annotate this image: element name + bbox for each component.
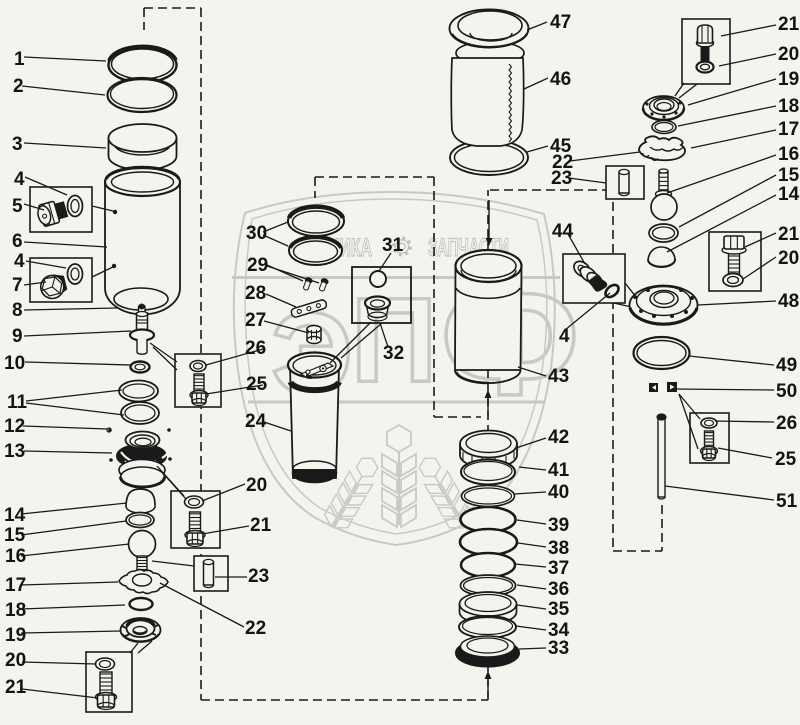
svg-text:1: 1 — [14, 49, 25, 70]
ring 10 — [131, 362, 150, 373]
pin 23 right — [619, 169, 629, 195]
box washer 20 bolt 21 mid — [171, 491, 220, 548]
ring 49 — [634, 337, 690, 369]
svg-text:35: 35 — [548, 599, 570, 620]
svg-text:22: 22 — [245, 618, 266, 639]
ring 11a — [119, 381, 158, 402]
svg-text:12: 12 — [4, 416, 25, 437]
bolt 21 mid — [185, 512, 205, 547]
flange nut 19r — [643, 96, 684, 120]
svg-text:41: 41 — [548, 460, 570, 481]
ring 39 — [461, 507, 516, 532]
svg-text:14: 14 — [4, 505, 26, 526]
box washer 26r bolt 25r — [690, 413, 729, 463]
arrow above cylinder 43 — [486, 200, 493, 246]
flange 48 — [630, 286, 698, 325]
ring 18r — [652, 121, 676, 134]
svg-text:15: 15 — [778, 165, 800, 186]
box bolt 20-21 bottom — [86, 652, 132, 712]
ring 45 — [450, 140, 528, 175]
svg-text:3: 3 — [12, 134, 23, 155]
dashed group boundary — [144, 8, 662, 700]
ring 42 — [460, 431, 517, 469]
ring 47 — [450, 10, 529, 48]
box plug 4-7 — [30, 258, 92, 302]
svg-text:46: 46 — [550, 69, 571, 90]
bolt 21b — [722, 236, 746, 274]
ring 40 — [462, 486, 515, 507]
piston in cylinder 24 — [288, 353, 341, 380]
washer 20 bottom — [96, 658, 115, 670]
washer 4b — [68, 264, 83, 284]
ring 30a — [288, 206, 344, 236]
svg-text:2: 2 — [13, 76, 24, 97]
svg-text:23: 23 — [551, 168, 572, 189]
watermark shield logo — [232, 192, 580, 545]
svg-text:49: 49 — [776, 355, 797, 376]
svg-text:14: 14 — [778, 184, 800, 205]
svg-text:25: 25 — [246, 374, 268, 395]
svg-text:24: 24 — [245, 411, 267, 432]
collar of cylinder 24 — [291, 382, 340, 390]
flange nut 19 — [121, 618, 161, 642]
bolt 25r — [701, 431, 718, 461]
svg-text:11: 11 — [7, 392, 28, 413]
svg-text:4: 4 — [14, 251, 25, 272]
ring 33 — [456, 636, 519, 667]
stop pieces 50 — [649, 382, 677, 392]
svg-text:37: 37 — [548, 558, 569, 579]
svg-text:7: 7 — [12, 275, 23, 296]
washer 4a — [68, 196, 83, 217]
nut 27 — [307, 326, 321, 344]
leader dot 12 — [107, 428, 111, 432]
box pin 23 left — [194, 556, 228, 591]
ball 16 — [129, 531, 156, 572]
svg-text:44: 44 — [552, 221, 574, 242]
ring 37 — [461, 553, 515, 577]
svg-text:23: 23 — [248, 566, 269, 587]
ring 15r — [649, 224, 678, 242]
washer 26 — [190, 361, 206, 372]
ring 15 — [126, 513, 154, 528]
port boss upper — [113, 210, 117, 214]
svg-text:16: 16 — [5, 546, 26, 567]
ring 11b — [121, 402, 159, 424]
washer 20 mid — [185, 496, 204, 508]
svg-text:21: 21 — [778, 14, 800, 35]
pin 23 left — [204, 559, 214, 587]
svg-text:33: 33 — [548, 638, 569, 659]
svg-text:20: 20 — [778, 44, 799, 65]
ring 36 — [461, 575, 516, 596]
svg-text:43: 43 — [548, 366, 569, 387]
ball 15r — [651, 191, 677, 221]
ring 41 — [461, 460, 515, 485]
svg-text:26: 26 — [245, 338, 266, 359]
lock plate 28 — [290, 299, 327, 318]
svg-text:15: 15 — [4, 525, 26, 546]
svg-text:38: 38 — [548, 538, 569, 559]
svg-text:50: 50 — [776, 381, 797, 402]
svg-text:26: 26 — [776, 413, 797, 434]
bolt holes 12 — [108, 428, 172, 462]
svg-text:21: 21 — [250, 515, 272, 536]
boot 46 — [451, 42, 524, 147]
ring 35 — [460, 592, 517, 624]
box washer 26 bolt 25 — [175, 354, 221, 407]
svg-text:20: 20 — [778, 248, 799, 269]
svg-text:17: 17 — [778, 119, 799, 140]
plug 7 — [38, 272, 68, 301]
bolt 21 bottom — [96, 672, 117, 710]
cap 14 — [126, 489, 155, 513]
svg-text:51: 51 — [776, 491, 798, 512]
svg-text:29: 29 — [247, 255, 268, 276]
box fitting 44 — [563, 254, 644, 309]
box bolt 21a washer 20a — [675, 19, 730, 98]
svg-text:36: 36 — [548, 579, 569, 600]
o-ring 31 — [370, 271, 386, 287]
arrow below ring 33 — [485, 671, 492, 697]
fitting 44 — [571, 258, 607, 291]
cylinder 43 — [455, 250, 522, 383]
svg-text:21: 21 — [5, 677, 27, 698]
stem 8 — [139, 304, 146, 318]
svg-text:18: 18 — [5, 600, 26, 621]
pin 29b — [318, 277, 330, 292]
svg-text:16: 16 — [778, 144, 799, 165]
bolt 21a — [697, 25, 714, 61]
svg-text:6: 6 — [12, 231, 23, 252]
svg-text:20: 20 — [246, 475, 267, 496]
svg-text:30: 30 — [246, 223, 267, 244]
ring 30b — [289, 236, 342, 265]
svg-text:48: 48 — [778, 291, 799, 312]
bolt 25 — [190, 374, 208, 406]
svg-text:42: 42 — [548, 427, 569, 448]
ring 2 — [108, 78, 177, 112]
washer 20a — [697, 62, 714, 73]
box bolt 21b washer 20b — [709, 232, 761, 291]
cylinder body 6 — [105, 167, 180, 314]
ring 18 — [130, 598, 153, 610]
ring 1 — [109, 46, 177, 82]
svg-text:9: 9 — [12, 326, 23, 347]
svg-text:8: 8 — [12, 300, 23, 321]
cylinder cup 3 — [109, 124, 177, 170]
shaft 9 — [130, 312, 154, 355]
washer 20b — [723, 274, 743, 287]
svg-text:4: 4 — [559, 326, 570, 347]
svg-text:18: 18 — [778, 96, 799, 117]
arrow below cylinder 43 — [485, 390, 492, 416]
box plug 4-5 — [30, 187, 92, 232]
svg-text:20: 20 — [5, 650, 26, 671]
rod 51 — [657, 414, 666, 499]
svg-text:28: 28 — [245, 283, 266, 304]
svg-text:32: 32 — [383, 343, 404, 364]
plug 5 — [36, 199, 69, 228]
box 31-32 — [352, 267, 411, 323]
svg-text:39: 39 — [548, 515, 569, 536]
ring 38 — [460, 529, 517, 555]
port boss lower — [112, 264, 116, 268]
svg-text:13: 13 — [4, 441, 25, 462]
svg-text:19: 19 — [778, 69, 799, 90]
svg-text:5: 5 — [12, 196, 23, 217]
svg-text:17: 17 — [5, 575, 26, 596]
svg-text:П: П — [351, 273, 437, 407]
cylinder 24 — [290, 366, 339, 483]
ring 34 — [459, 616, 516, 638]
svg-text:19: 19 — [5, 625, 26, 646]
svg-text:4: 4 — [14, 169, 25, 190]
bushing 32 — [365, 297, 390, 321]
bearing assembly 13 — [117, 432, 168, 488]
flange 17 — [119, 570, 168, 594]
svg-text:21: 21 — [778, 224, 800, 245]
svg-text:40: 40 — [548, 482, 569, 503]
pin 29a — [302, 276, 314, 291]
o-ring 4c — [603, 283, 621, 300]
svg-text:27: 27 — [245, 310, 266, 331]
svg-text:25: 25 — [775, 449, 797, 470]
stud 16r — [659, 169, 668, 196]
svg-text:31: 31 — [382, 235, 404, 256]
washer 26r — [701, 418, 717, 428]
box pin 23 right — [606, 166, 644, 199]
snap ring 17-22 — [639, 136, 685, 160]
cap 14r — [648, 247, 675, 267]
svg-text:47: 47 — [550, 12, 571, 33]
svg-text:10: 10 — [4, 353, 25, 374]
